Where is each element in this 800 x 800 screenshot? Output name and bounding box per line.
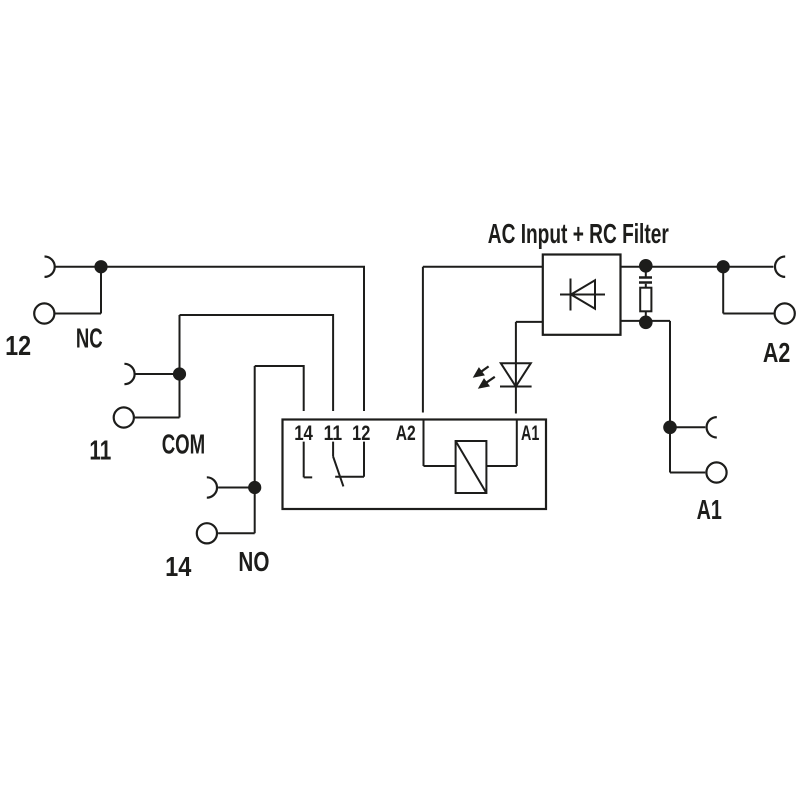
svg-text:A1: A1 [521,422,540,445]
svg-text:11: 11 [324,422,343,445]
svg-text:AC Input + RC Filter: AC Input + RC Filter [488,218,669,249]
svg-text:COM: COM [162,428,206,459]
svg-text:A1: A1 [697,494,722,525]
svg-text:NC: NC [76,323,103,354]
svg-text:A2: A2 [396,422,416,445]
svg-text:NO: NO [238,546,269,577]
svg-text:12: 12 [352,422,370,445]
svg-text:11: 11 [89,434,111,465]
svg-text:14: 14 [294,422,313,445]
svg-text:14: 14 [165,551,192,582]
svg-text:12: 12 [5,330,31,361]
svg-text:A2: A2 [763,337,790,368]
